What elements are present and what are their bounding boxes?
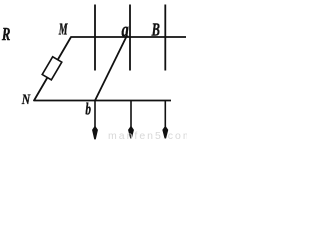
- svg-text:B: B: [151, 20, 160, 40]
- svg-text:manfen5.com: manfen5.com: [108, 130, 187, 141]
- svg-text:b: b: [85, 102, 91, 119]
- svg-text:R: R: [1, 25, 10, 44]
- svg-text:a: a: [121, 18, 128, 41]
- svg-text:M: M: [58, 20, 68, 38]
- svg-text:N: N: [21, 91, 31, 108]
